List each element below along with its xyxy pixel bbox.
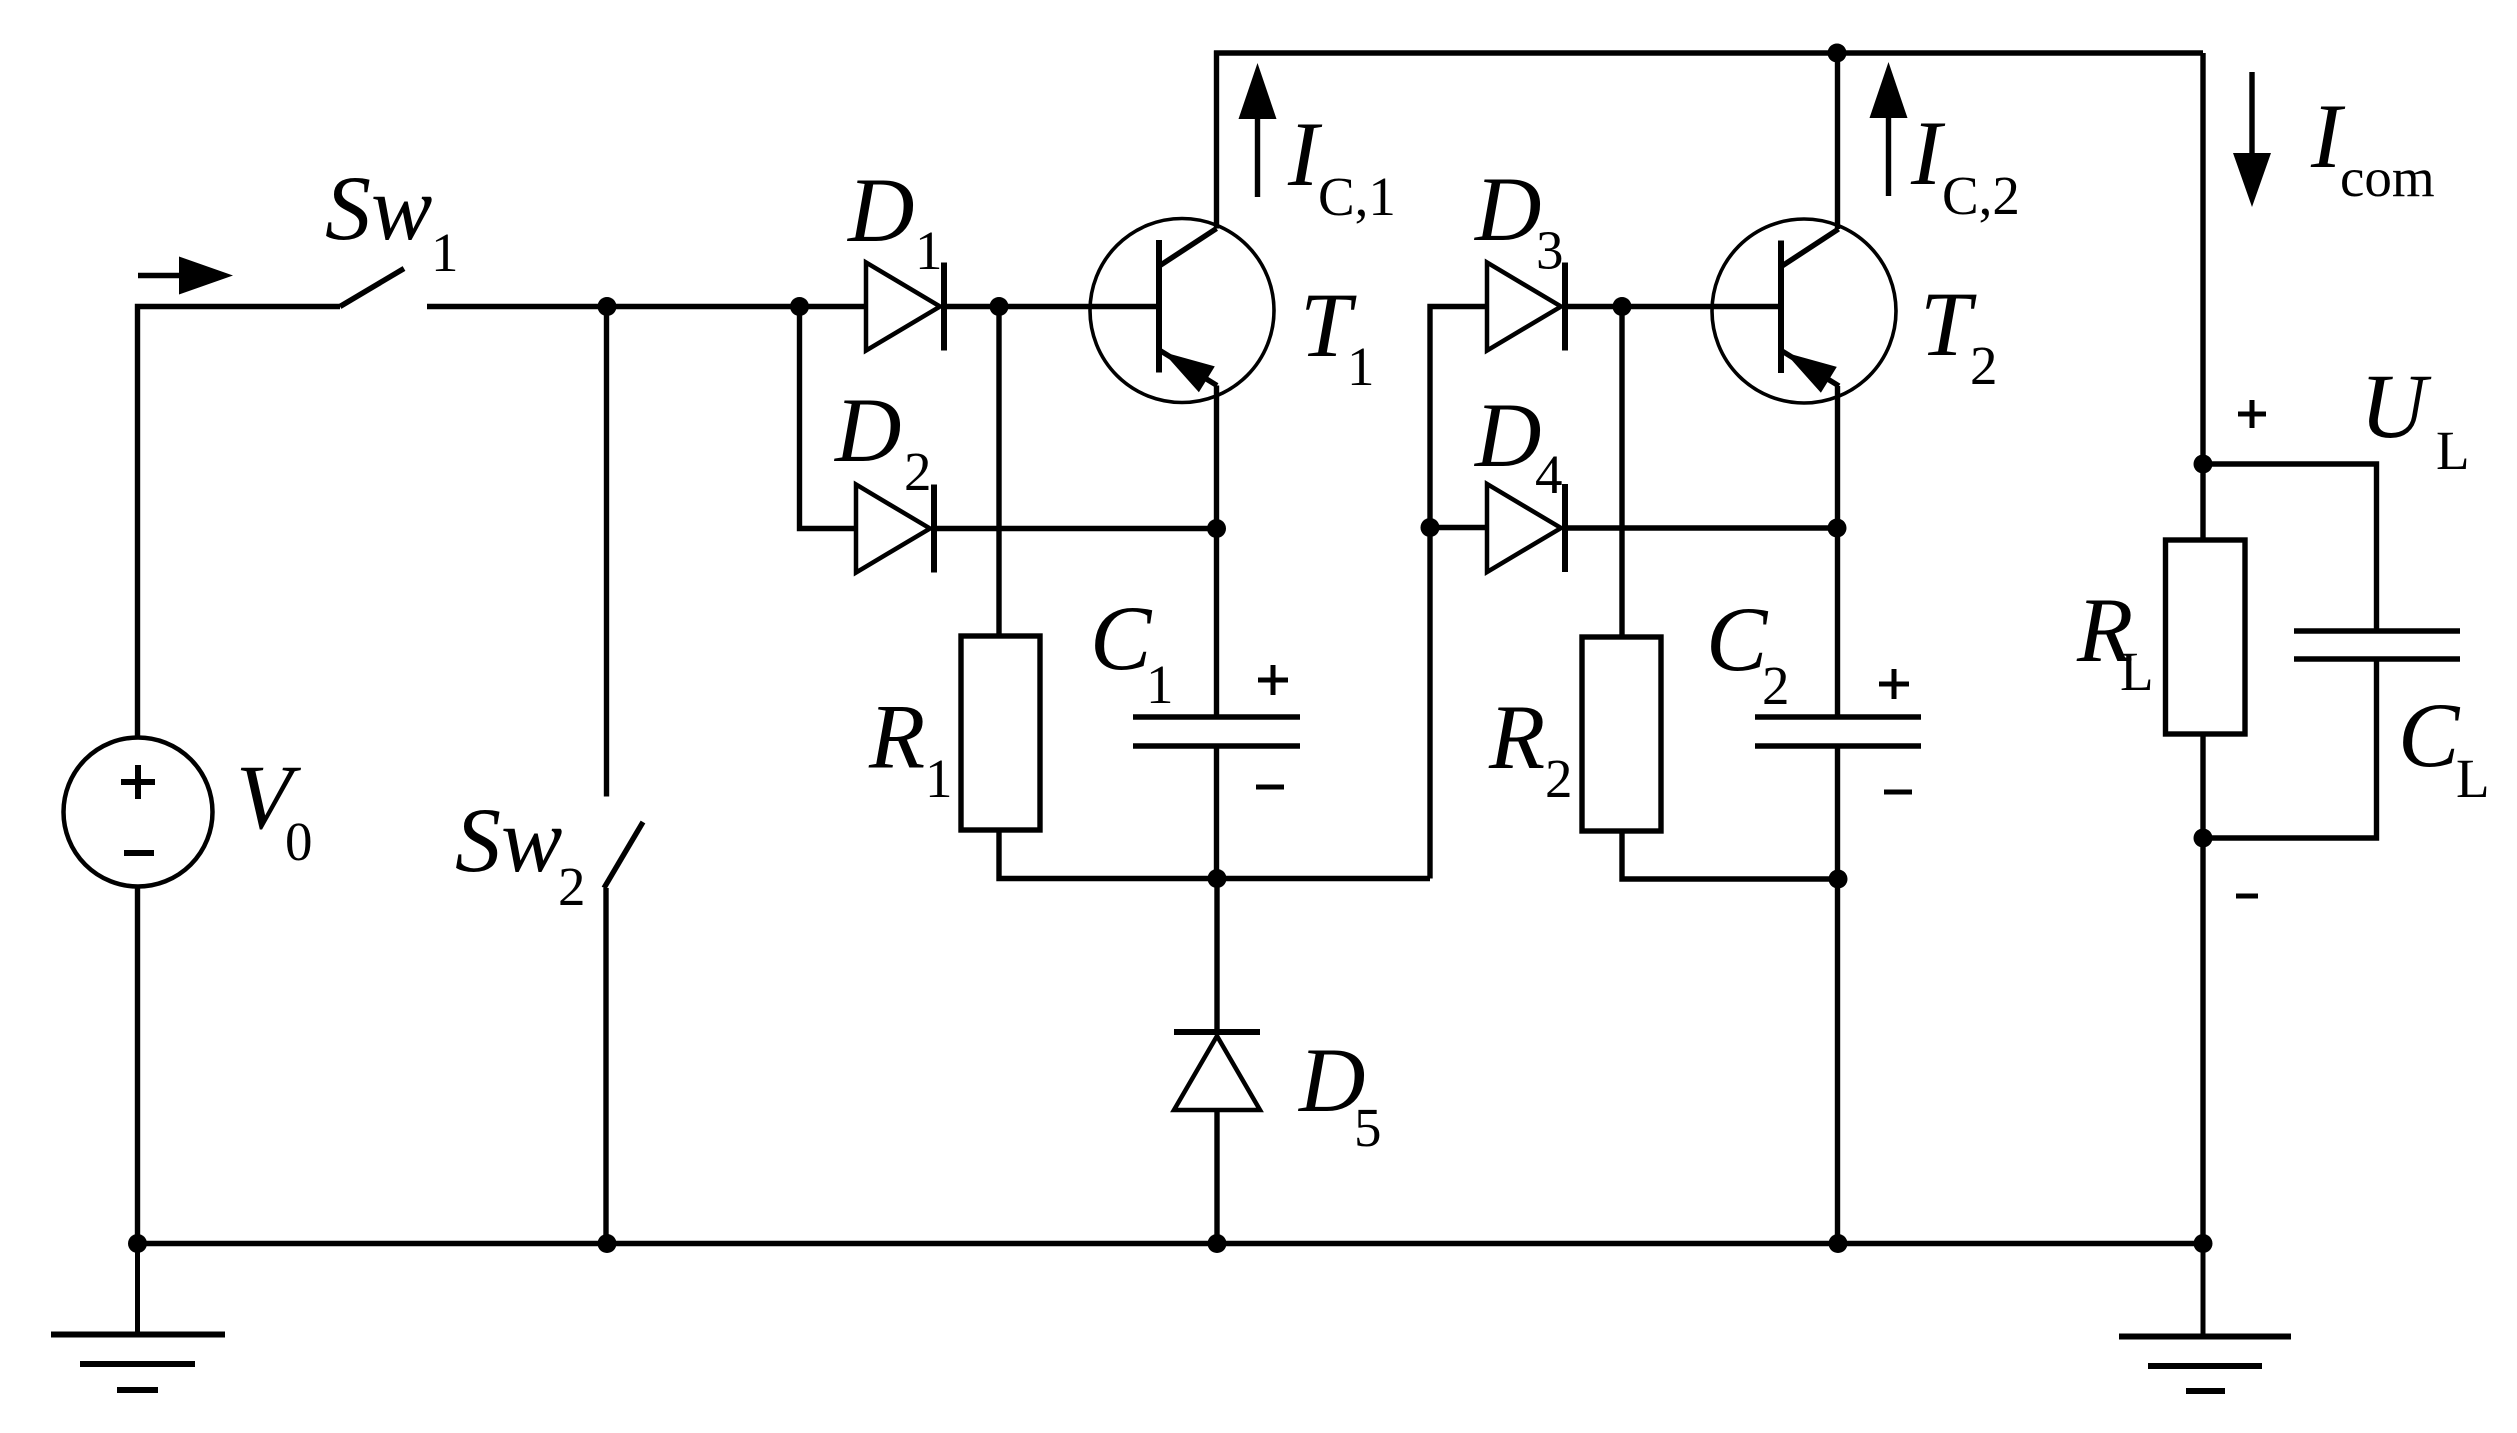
label D2 — [833, 379, 932, 502]
wire: stage2 feed vertical (from R1/C1 node up to D3/D4) — [1430, 307, 1487, 879]
transistor T2 — [1712, 219, 1896, 403]
ground right — [2119, 1244, 2291, 1392]
input current arrow — [138, 257, 233, 295]
polarity - of C2 — [1884, 790, 1912, 795]
label Sw1 — [325, 157, 459, 283]
wire: Sw1 to D1 anode — [427, 304, 866, 309]
wire: T2 base node down to R2 — [1619, 307, 1624, 638]
wire: V0 bottom to bottom bus — [135, 887, 140, 1244]
wire: input left corner down to V0 — [138, 307, 341, 738]
svg-text:3: 3 — [1536, 220, 1564, 281]
label Sw2 — [455, 789, 586, 917]
svg-text:C: C — [1090, 587, 1153, 689]
node: T1 base junction — [990, 297, 1009, 316]
capacitor C1 — [1133, 717, 1300, 746]
current arrow Icom — [2233, 72, 2271, 207]
svg-text:C: C — [2398, 684, 2461, 786]
polarity - of UL — [2236, 894, 2258, 899]
svg-text:1: 1 — [925, 748, 953, 809]
svg-text:T: T — [1920, 273, 1977, 375]
wire: load top to CL — [2203, 464, 2377, 631]
svg-text:I: I — [1910, 102, 1946, 204]
diode D4 — [1487, 484, 1565, 572]
label RL — [2076, 579, 2154, 702]
voltage source V0 — [64, 738, 213, 887]
node: D5 on bottom bus — [1208, 1234, 1227, 1253]
svg-text:C,2: C,2 — [1942, 165, 2020, 226]
wire: D4 anode — [1430, 525, 1487, 530]
label T1 — [1300, 274, 1375, 397]
svg-text:D: D — [1473, 158, 1541, 260]
svg-text:Sw: Sw — [325, 157, 432, 259]
node: Sw2 top junction — [598, 297, 617, 316]
node: D4 anode junction — [1421, 518, 1440, 537]
label UL — [2360, 355, 2470, 481]
node: T2 base junction — [1613, 297, 1632, 316]
label IC2 — [1910, 102, 2020, 226]
wire: top bus — [1214, 50, 2203, 55]
svg-text:L: L — [2456, 748, 2490, 809]
wire: D4 cathode to T2 emitter node — [1565, 525, 1837, 530]
svg-text:1: 1 — [1146, 654, 1174, 715]
wire: RL bottom lead — [2200, 734, 2205, 838]
diode D1 — [866, 263, 944, 351]
svg-text:2: 2 — [1762, 655, 1790, 716]
polarity + of C2 — [1879, 669, 1909, 699]
diode D2 — [856, 485, 934, 573]
current arrow IC1 — [1239, 63, 1277, 197]
svg-text:com: com — [2340, 147, 2435, 208]
wire: D2 cathode to T1 emitter node — [934, 526, 1217, 531]
wire: D3 cathode to T2 base bar — [1565, 304, 1781, 309]
label T2 — [1920, 273, 1998, 396]
diode D3 — [1487, 263, 1565, 351]
svg-text:L: L — [2120, 641, 2154, 702]
label D4 — [1473, 384, 1563, 505]
label Icom — [2310, 85, 2435, 208]
wire: junction down to D5 cathode — [1214, 879, 1219, 1033]
capacitor CL — [2294, 631, 2460, 659]
node: T2 collector on top bus — [1828, 44, 1847, 63]
node: Sw2 on bottom bus — [598, 1234, 617, 1253]
wire: R2 bottom to C2 node — [1622, 831, 1838, 879]
wire: R1 bottom to C1/D5 node — [999, 830, 1430, 879]
svg-text:C: C — [1706, 588, 1769, 690]
wire: base node down to R1 — [996, 307, 1001, 637]
wire: right bus vertical — [2200, 53, 2205, 464]
svg-text:Sw: Sw — [455, 789, 562, 891]
diode D5 — [1174, 1032, 1260, 1110]
svg-text:L: L — [2436, 420, 2470, 481]
svg-text:2: 2 — [904, 441, 932, 502]
wire: CL bottom to load bottom node — [2203, 659, 2377, 838]
node: V0 on bottom bus — [128, 1234, 147, 1253]
wire: T1 emitter down to C1 — [1214, 386, 1219, 718]
node: load top junction — [2194, 455, 2213, 474]
label C2 — [1706, 588, 1790, 716]
polarity + of UL — [2238, 400, 2266, 428]
label CL — [2398, 684, 2490, 809]
wire: T1 collector up to top bus — [1214, 51, 1219, 229]
svg-text:U: U — [2360, 355, 2432, 457]
node: D4 cathode / T2 emitter junction — [1828, 519, 1847, 538]
wire: D5 anode down to bottom bus — [1214, 1110, 1219, 1244]
node: right bus on bottom bus — [2194, 1234, 2213, 1253]
resistor RL — [2166, 540, 2246, 734]
switch Sw2 — [604, 307, 643, 1244]
label IC1 — [1287, 103, 1396, 227]
node: R1/C1/D5 junction — [1208, 869, 1227, 888]
svg-text:1: 1 — [431, 222, 459, 283]
svg-text:2: 2 — [558, 856, 586, 917]
svg-text:C,1: C,1 — [1318, 166, 1396, 227]
node: D1/D2 anode junction — [790, 297, 809, 316]
svg-text:4: 4 — [1535, 444, 1563, 505]
svg-text:R: R — [868, 686, 925, 788]
svg-text:1: 1 — [1347, 336, 1375, 397]
node: C2 branch on bottom bus — [1829, 1234, 1848, 1253]
node: R2/C2 junction — [1829, 870, 1848, 889]
capacitor C2 — [1755, 717, 1921, 746]
wire: C1 bottom to junction — [1214, 746, 1219, 879]
resistor R2 — [1582, 637, 1661, 831]
label R1 — [868, 686, 953, 810]
label D3 — [1473, 158, 1564, 281]
label D5 — [1297, 1029, 1382, 1158]
svg-text:D: D — [846, 159, 914, 261]
wire: D1 cathode to T1 base bar — [944, 304, 1159, 309]
svg-text:D: D — [1473, 384, 1541, 486]
wire: RL top lead — [2200, 464, 2205, 540]
wire: C2 bottom to junction and bottom bus — [1835, 746, 1840, 1244]
label C1 — [1090, 587, 1174, 715]
ground left — [51, 1244, 225, 1391]
wire: D1/D2 junction down to D2 anode — [800, 307, 857, 529]
resistor R1 — [961, 636, 1040, 830]
label D1 — [846, 159, 943, 281]
switch Sw1 — [340, 269, 404, 307]
svg-text:0: 0 — [285, 811, 313, 872]
label V0 — [236, 746, 313, 872]
svg-text:R: R — [1488, 686, 1545, 788]
node: load bottom junction — [2194, 829, 2213, 848]
svg-text:1: 1 — [915, 220, 943, 281]
wire: T2 emitter down to C2 — [1835, 386, 1840, 717]
polarity + of C1 — [1258, 665, 1288, 695]
label R2 — [1488, 686, 1573, 809]
node: D2 cathode / T1 emitter junction — [1207, 519, 1226, 538]
svg-text:2: 2 — [1545, 748, 1573, 809]
wire: load bottom to bottom bus — [2200, 838, 2205, 1244]
polarity - of C1 — [1256, 785, 1284, 790]
svg-text:2: 2 — [1970, 335, 1998, 396]
svg-text:5: 5 — [1354, 1097, 1382, 1158]
svg-text:D: D — [833, 379, 901, 481]
transistor T1 — [1090, 219, 1274, 403]
wire: T2 collector up to top bus — [1835, 53, 1840, 229]
current arrow IC2 — [1870, 62, 1908, 196]
wire: bottom bus — [138, 1241, 2204, 1246]
